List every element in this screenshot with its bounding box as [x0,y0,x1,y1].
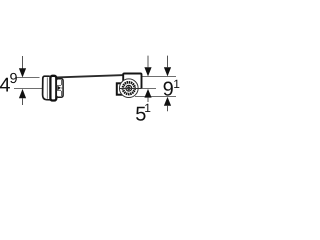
svg-text:9: 9 [10,71,18,87]
svg-text:1: 1 [144,101,151,115]
svg-text:9: 9 [163,79,174,101]
svg-text:1: 1 [173,77,180,91]
